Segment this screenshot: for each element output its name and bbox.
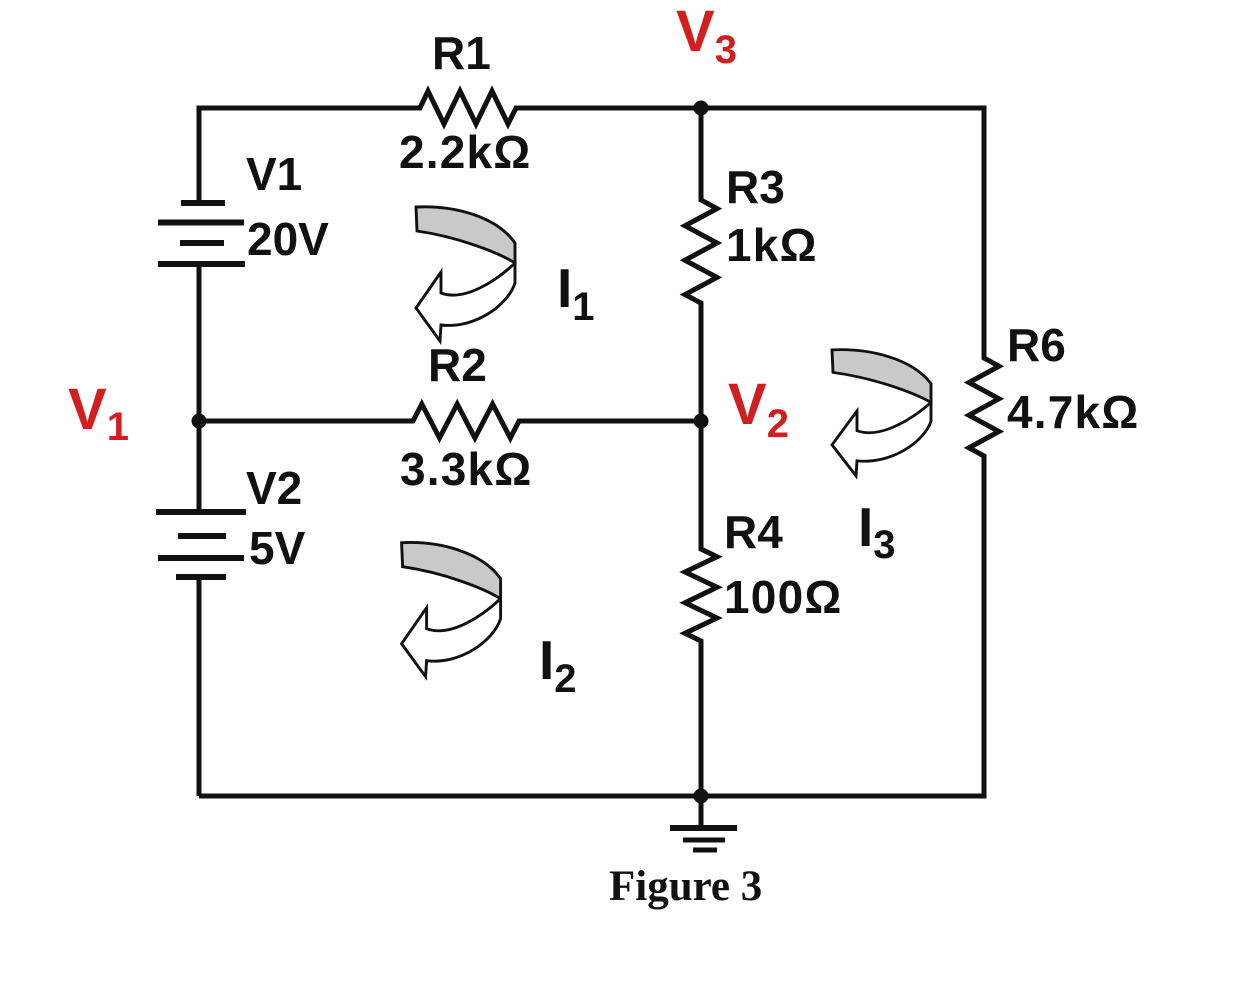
mesh current arrow I3: [832, 350, 931, 476]
battery V2: [156, 512, 246, 577]
svg-text:V1: V1: [68, 377, 129, 449]
svg-text:2.2kΩ: 2.2kΩ: [399, 126, 531, 178]
svg-text:I1: I1: [557, 257, 595, 329]
svg-text:4.7kΩ: 4.7kΩ: [1007, 386, 1139, 438]
battery V1: [158, 203, 245, 264]
svg-text:V1: V1: [246, 148, 302, 200]
svg-text:3.3kΩ: 3.3kΩ: [400, 443, 532, 495]
mesh current arrow I2: [402, 542, 501, 676]
wire: left side upper (top corner to battery V1): [197, 108, 202, 203]
svg-text:R2: R2: [428, 339, 487, 391]
wire: bottom side: [199, 794, 984, 799]
svg-text:I2: I2: [539, 629, 577, 701]
ground symbol: [670, 796, 737, 850]
svg-text:I3: I3: [858, 496, 896, 567]
svg-text:R4: R4: [724, 506, 783, 558]
wire: top side with resistor R1 zigzag: [199, 91, 984, 124]
svg-text:1kΩ: 1kΩ: [726, 219, 818, 271]
svg-text:R1: R1: [432, 27, 491, 79]
wire: middle horizontal with resistor R2 zigzag: [199, 404, 701, 438]
node V3 junction dot: [694, 101, 709, 116]
svg-text:R6: R6: [1007, 319, 1066, 371]
wire: left side middle (battery V1 to node V1 to battery V2): [197, 264, 202, 512]
svg-text:V2: V2: [246, 462, 302, 514]
mesh current arrow I1: [416, 207, 515, 341]
svg-text:5V: 5V: [249, 522, 306, 574]
ground node junction dot: [694, 789, 709, 804]
svg-text:20V: 20V: [247, 213, 329, 265]
svg-text:V2: V2: [728, 372, 789, 446]
svg-text:Figure 3: Figure 3: [609, 863, 762, 910]
wire: middle vertical upper with resistor R3 zigzag: [685, 108, 717, 421]
node V2 junction dot: [694, 414, 709, 429]
svg-text:100Ω: 100Ω: [724, 571, 842, 623]
svg-text:V3: V3: [676, 0, 737, 72]
wire: middle vertical lower with resistor R4 zigzag: [685, 421, 717, 796]
wire: right side with resistor R6 zigzag: [969, 108, 999, 796]
svg-text:R3: R3: [726, 161, 785, 213]
node V1 junction dot: [192, 414, 207, 429]
wire: left side lower (battery V2 to bottom corner): [197, 577, 202, 796]
